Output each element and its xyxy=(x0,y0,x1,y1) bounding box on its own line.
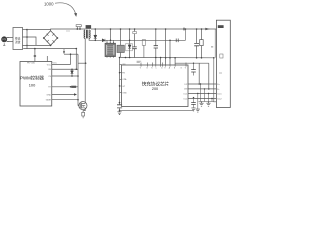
svg-text:GND: GND xyxy=(47,94,52,96)
svg-text:DM: DM xyxy=(184,89,187,91)
gnd below chip right xyxy=(197,94,199,109)
capacitor C7 x193.5 xyxy=(193,63,195,75)
wire EMI out top xyxy=(23,29,28,31)
tiny label below rail xyxy=(66,30,70,32)
chip right pin wires to USB xyxy=(188,84,216,99)
wire x70.5 down to vcc pin xyxy=(70,54,72,64)
diode D3 small xyxy=(71,71,74,74)
label 1000 leader arc xyxy=(55,3,76,14)
arrow down x64 xyxy=(63,49,65,52)
bead component on pin4 xyxy=(71,86,76,88)
svg-text:GATE: GATE xyxy=(46,99,52,102)
junction bridge left xyxy=(43,37,45,39)
wire x165.6 rail to bus xyxy=(165,29,167,65)
stub x160.6 bus to chip xyxy=(160,58,162,66)
snubber stubs above rail xyxy=(77,27,80,30)
wire AC line to bridge top xyxy=(27,29,51,31)
chip left pin bus x119.5 xyxy=(119,58,121,112)
inline component on aux line xyxy=(176,39,178,43)
EMI filter box xyxy=(13,28,23,50)
wire PWM gate pin y99.7 xyxy=(52,99,78,101)
text VBUS in USB box xyxy=(218,25,224,28)
transformer T1 top mark xyxy=(86,25,92,29)
filter caps on data lines xyxy=(201,84,213,102)
wire DC+ top rail primary xyxy=(51,29,86,31)
svg-text:GND: GND xyxy=(122,93,127,95)
ground below C4 xyxy=(117,112,121,115)
wire top rail secondary xyxy=(91,28,216,30)
transformer T1 secondary winding xyxy=(89,30,90,38)
chip top pin stubs xyxy=(141,63,186,67)
primary ground line y48.6 xyxy=(23,48,76,50)
junction rail x129 xyxy=(129,28,131,30)
wire x74.9 down to fb pin xyxy=(75,49,77,70)
PWM controller box U1 xyxy=(20,62,52,107)
AC source plug xyxy=(2,37,9,46)
aux link y63.2 xyxy=(78,62,86,64)
wire bus to chip pin x170 xyxy=(169,40,171,65)
secondary ground bus y57.5 xyxy=(121,57,215,59)
junction bridge right xyxy=(57,37,59,39)
arrow into USB VBUS xyxy=(205,28,210,31)
regulator box U3 xyxy=(117,45,124,52)
USB inner mark xyxy=(220,54,223,58)
wire C6 to chip xyxy=(155,58,157,66)
wire PWM pin4 y86.8 xyxy=(52,86,78,88)
MOSFET Q1 xyxy=(79,102,87,110)
svg-text:100: 100 xyxy=(29,83,36,88)
junction x74.9 xyxy=(76,48,78,50)
wire PWM pin5 y94.5 xyxy=(52,94,74,96)
junction snubber left xyxy=(76,28,78,30)
wire x199.2 down xyxy=(198,63,200,84)
svg-text:整流: 整流 xyxy=(15,36,21,40)
wire PWM top stub2 xyxy=(46,56,48,62)
diode D2 inline xyxy=(102,39,105,42)
wire U3 to bus xyxy=(120,53,122,58)
primary line y45.4 xyxy=(23,44,51,46)
wire x215.2 rail to bus xyxy=(214,29,216,58)
stub below R2 xyxy=(82,116,84,118)
chip left pins xyxy=(120,64,122,92)
svg-text:200: 200 xyxy=(152,87,158,91)
ground symbol data2 xyxy=(206,102,210,107)
wire x185.5 rail to aux line xyxy=(185,29,187,40)
junction D1 bottom xyxy=(95,40,97,42)
bridge rectifier BR1 xyxy=(44,31,58,46)
svg-text:D-: D- xyxy=(217,89,220,91)
sense resistor R2 xyxy=(82,112,85,116)
wire EMI vertical bus xyxy=(26,30,28,49)
wire source down xyxy=(83,108,85,112)
tick on rail x183.7 xyxy=(183,28,184,31)
ground symbol data1 xyxy=(199,102,203,107)
svg-text:OPA: OPA xyxy=(122,78,127,81)
label tick near R3 xyxy=(211,46,213,48)
junction bridge bottom xyxy=(50,45,52,47)
snubber box xyxy=(76,25,81,27)
wire rail to U3 xyxy=(120,29,122,45)
optocoupler U5 xyxy=(129,29,131,45)
tick on HV wire xyxy=(34,56,36,57)
text chip right pin labels xyxy=(183,84,188,101)
resistor R4 x143.9 xyxy=(143,40,145,58)
cap and gnd below chip corner xyxy=(193,98,195,108)
junction rail x165.6 xyxy=(165,28,167,30)
svg-text:滤波: 滤波 xyxy=(15,40,21,44)
capacitor C4 on bus xyxy=(117,105,122,108)
text USB pin labels xyxy=(217,84,222,101)
junction rail x156.5 xyxy=(155,28,157,30)
resistor R3 x201.5 xyxy=(201,29,203,58)
wire EMI out mid xyxy=(23,37,37,45)
svg-text:PWM控制器: PWM控制器 xyxy=(20,74,45,81)
svg-text:CC1: CC1 xyxy=(217,94,222,96)
gnd bar for data caps xyxy=(199,101,214,103)
wire PWM pin3 y76 xyxy=(52,75,78,77)
line y63 right xyxy=(175,62,209,64)
svg-text:VCC: VCC xyxy=(53,62,58,64)
capacitor C5 x134.6 xyxy=(134,29,136,58)
svg-text:VIN: VIN xyxy=(122,64,126,66)
label 1000 arrowhead xyxy=(74,13,77,17)
wire gate to MOSFET xyxy=(77,105,80,107)
capacitor C6 x156.5 xyxy=(155,29,157,58)
wire bus to chip pin x175 xyxy=(174,58,176,65)
junction bus x165.6 xyxy=(165,57,167,59)
SR controller U2 xyxy=(105,42,116,58)
wire drain up to transformer xyxy=(84,38,86,103)
wire rail drop x110.5 xyxy=(110,29,112,40)
wire PWM pin1 y64.5 xyxy=(52,64,71,66)
wire secondary bottom line xyxy=(89,38,102,40)
svg-text:VCC: VCC xyxy=(47,64,52,66)
vertical bus x78 xyxy=(77,54,79,105)
wire PWM HV pin xyxy=(34,49,36,62)
transformer T1 primary winding xyxy=(84,30,85,38)
wire U2 top stubs xyxy=(107,40,113,42)
junction rail x196.6 xyxy=(196,28,198,30)
primary line y54.2 xyxy=(64,53,78,55)
wire PWM pin2 y69.25 xyxy=(52,68,78,70)
text chip top pin labels xyxy=(140,66,187,69)
junction rail x134 xyxy=(134,28,136,30)
text PWM right pin labels xyxy=(46,64,52,101)
junction snubber right xyxy=(79,28,81,30)
svg-text:1000: 1000 xyxy=(44,1,54,6)
text chip left pin labels xyxy=(122,64,127,94)
svg-text:CC2: CC2 xyxy=(217,99,222,101)
wire x213.8 bus down to gnd pin xyxy=(214,58,217,102)
junction bus x125.5 xyxy=(125,57,127,59)
junction rail x120.5 xyxy=(120,28,122,30)
wire AC to EMI filter xyxy=(9,37,13,41)
capacitor C8 x196.6 xyxy=(196,29,198,58)
arrow end pin5 xyxy=(74,93,77,95)
junction rail x110.5 xyxy=(110,28,112,30)
wire x208.8 down xyxy=(208,63,210,89)
USB connector box J1 xyxy=(216,20,230,107)
junction D1 rail xyxy=(95,28,97,30)
svg-text:HV VDD: HV VDD xyxy=(27,63,36,65)
wire gnd bus under chip xyxy=(120,109,194,111)
protocol chip box U4 xyxy=(122,65,189,107)
transformer T1 core xyxy=(86,30,87,39)
rectifier diode D1 vertical xyxy=(94,29,96,35)
